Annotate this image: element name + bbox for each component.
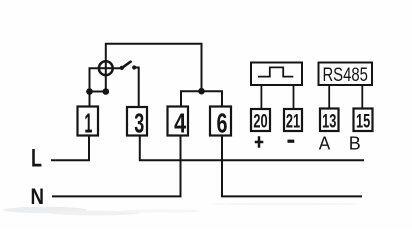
- label - (pulse negative): [288, 140, 295, 143]
- terminal 15: [354, 109, 373, 133]
- wire: terminal 6 to load N out: [222, 136, 362, 197]
- svg-text:15: 15: [356, 112, 370, 133]
- wire: branch to terminal 6: [202, 91, 223, 106]
- wire: L input to terminal 1: [51, 136, 89, 161]
- svg-text:13: 13: [322, 112, 336, 133]
- wire: between junction dots: [90, 91, 106, 93]
- junction dot below circle: [103, 88, 110, 95]
- svg-text:RS485: RS485: [322, 64, 368, 86]
- terminal 20: [251, 109, 270, 132]
- terminal 13: [320, 109, 339, 133]
- wire: terminal 3 to load L out: [140, 136, 364, 161]
- terminal 3: [127, 107, 147, 139]
- switch blade: [123, 62, 131, 68]
- scan shadow band bottom left: [3, 203, 360, 216]
- terminal 21: [284, 109, 302, 132]
- svg-text:20: 20: [253, 111, 267, 132]
- switch right contact: [132, 65, 136, 69]
- wire: pulse module to terminal 20: [260, 85, 262, 109]
- junction dot above terminal 1: [86, 88, 93, 95]
- wire: top link from voltage circle to terminals 4/6 branch: [106, 44, 202, 92]
- svg-text:4: 4: [174, 108, 186, 139]
- terminal 6: [210, 107, 231, 139]
- voltage coil circle symbol: [99, 61, 113, 75]
- wire: switch to terminal 3: [134, 68, 139, 107]
- svg-text:L: L: [31, 144, 42, 172]
- wire: circle left branch down to junction above terminal 1: [90, 68, 123, 106]
- svg-text:N: N: [30, 184, 44, 209]
- svg-text:B: B: [349, 132, 361, 153]
- svg-text:A: A: [319, 132, 331, 153]
- switch (voltage link) pivot contact: [120, 66, 124, 70]
- svg-text:1: 1: [84, 108, 92, 139]
- svg-text:3: 3: [134, 108, 144, 139]
- wire: N input to terminal 4: [52, 136, 181, 197]
- terminal 4: [168, 107, 189, 139]
- junction dot above terminals 4/6: [198, 88, 205, 95]
- svg-text:6: 6: [217, 108, 228, 139]
- pulse output module box: [251, 63, 302, 86]
- svg-text:21: 21: [286, 111, 301, 132]
- RS485 module box: [319, 63, 373, 87]
- label + (pulse positive): [255, 136, 264, 147]
- terminal 1: [78, 107, 99, 139]
- wire: branch to terminal 4: [181, 91, 202, 106]
- pulse waveform symbol: [258, 67, 293, 76]
- wire: RS485 to terminal 15: [361, 85, 363, 109]
- wire: RS485 to terminal 13: [328, 85, 330, 109]
- wire: pulse module to terminal 21: [293, 85, 295, 109]
